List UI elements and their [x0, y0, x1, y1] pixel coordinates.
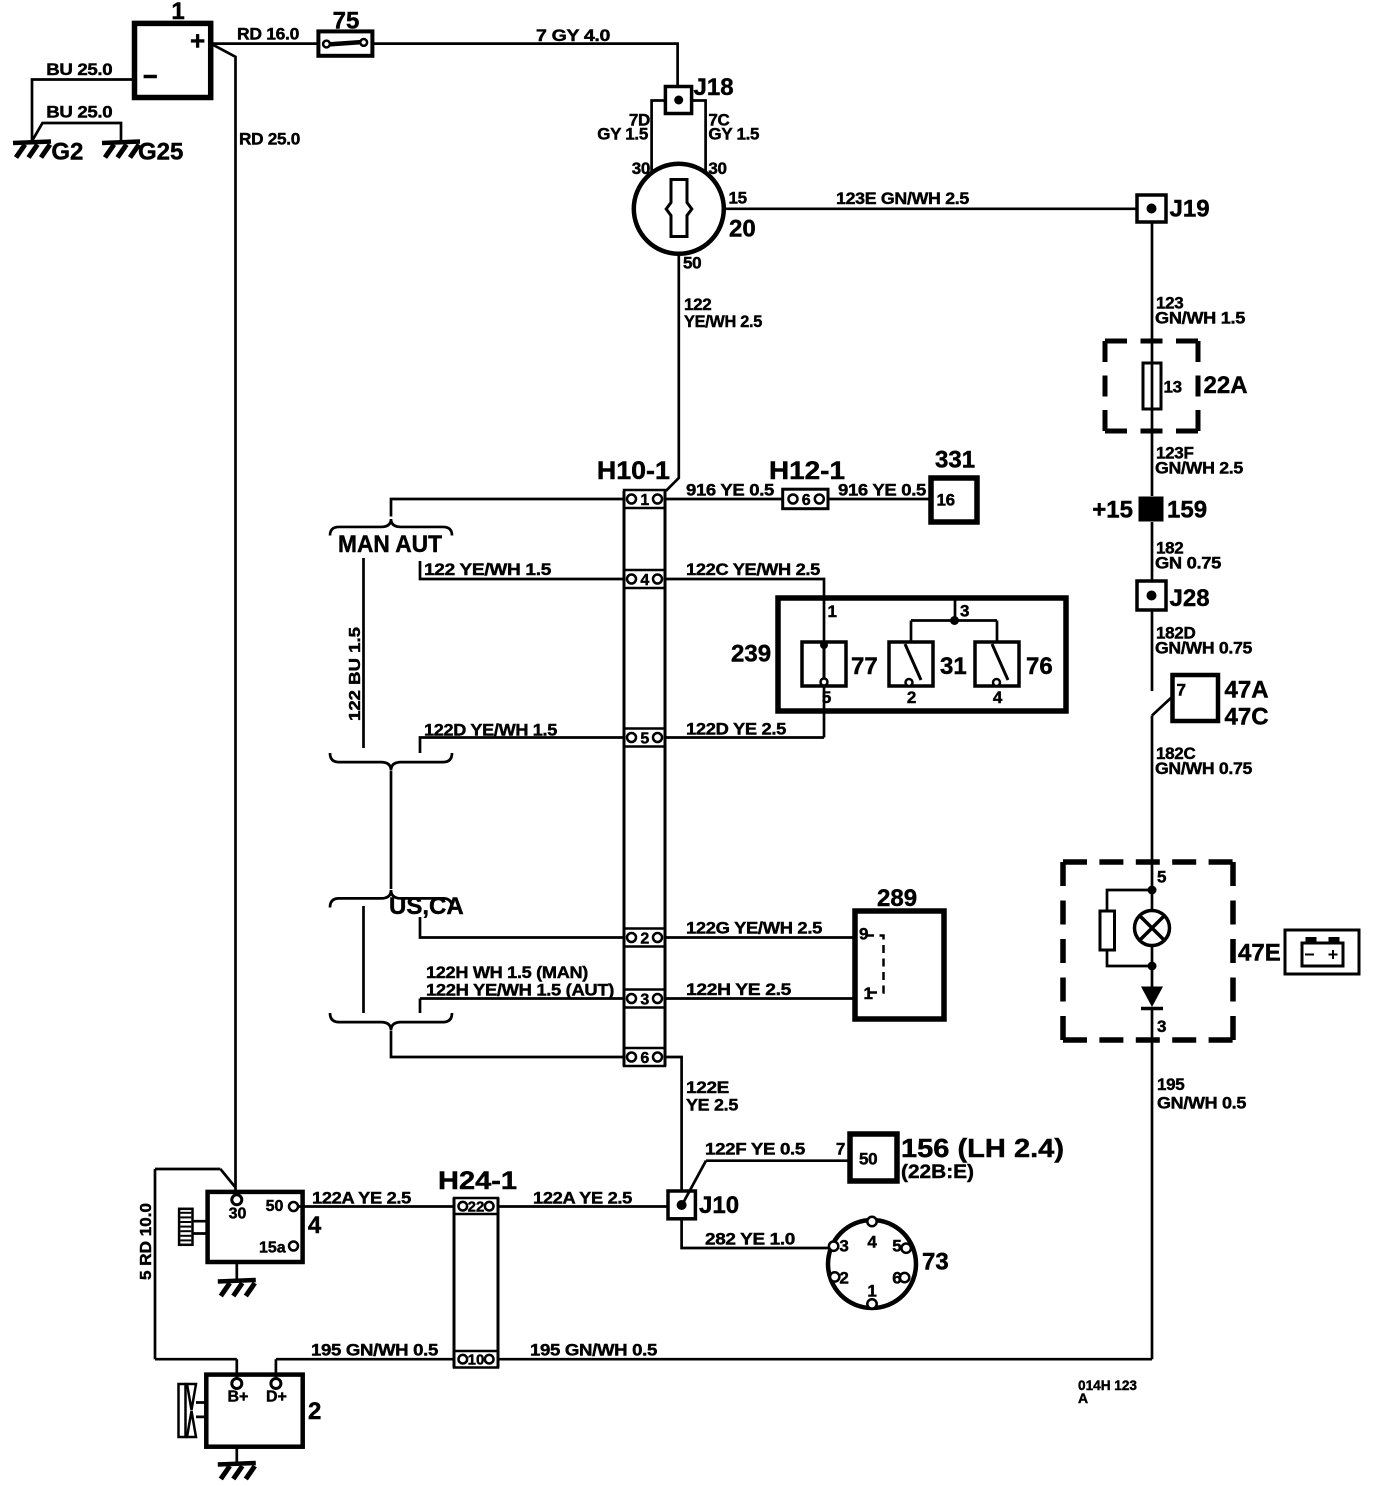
svg-text:47A: 47A: [1225, 677, 1269, 704]
svg-text:195: 195: [1157, 1075, 1184, 1094]
svg-text:123E GN/WH 2.5: 123E GN/WH 2.5: [836, 189, 969, 208]
svg-text:4: 4: [308, 1212, 322, 1239]
svg-text:122C YE/WH 2.5: 122C YE/WH 2.5: [686, 560, 820, 579]
svg-text:122A YE 2.5: 122A YE 2.5: [312, 1189, 411, 1208]
svg-text:122H YE/WH 1.5 (AUT): 122H YE/WH 1.5 (AUT): [426, 981, 614, 1000]
svg-text:H12-1: H12-1: [769, 457, 845, 485]
svg-text:H24-1: H24-1: [438, 1167, 517, 1195]
svg-text:GN/WH 0.75: GN/WH 0.75: [1155, 759, 1252, 778]
svg-text:282 YE 1.0: 282 YE 1.0: [705, 1230, 795, 1249]
svg-text:MAN AUT: MAN AUT: [338, 531, 442, 558]
svg-text:122D YE 2.5: 122D YE 2.5: [686, 720, 786, 739]
svg-text:4: 4: [640, 572, 649, 589]
svg-text:50: 50: [683, 254, 701, 273]
svg-text:916 YE 0.5: 916 YE 0.5: [838, 481, 926, 500]
svg-text:76: 76: [1026, 653, 1053, 680]
svg-text:6: 6: [892, 1269, 901, 1288]
svg-text:YE/WH 2.5: YE/WH 2.5: [684, 312, 762, 331]
svg-text:47C: 47C: [1225, 704, 1269, 731]
svg-text:1: 1: [171, 0, 184, 25]
svg-text:195 GN/WH 0.5: 195 GN/WH 0.5: [311, 1341, 438, 1360]
svg-text:916 YE 0.5: 916 YE 0.5: [686, 481, 774, 500]
svg-text:2: 2: [640, 931, 649, 948]
svg-text:331: 331: [935, 447, 975, 474]
svg-text:6: 6: [802, 492, 811, 509]
svg-text:15a: 15a: [259, 1240, 286, 1257]
svg-text:195 GN/WH 0.5: 195 GN/WH 0.5: [530, 1341, 657, 1360]
svg-text:122 YE/WH 1.5: 122 YE/WH 1.5: [424, 560, 551, 579]
svg-text:GY 1.5: GY 1.5: [597, 125, 648, 144]
svg-text:1: 1: [828, 602, 837, 621]
svg-text:16: 16: [937, 491, 955, 510]
svg-text:YE 2.5: YE 2.5: [686, 1096, 738, 1115]
svg-text:J19: J19: [1170, 196, 1210, 223]
svg-text:US,CA: US,CA: [389, 893, 464, 920]
svg-text:50: 50: [266, 1198, 284, 1215]
svg-text:+15: +15: [1092, 497, 1133, 524]
svg-text:1: 1: [640, 492, 649, 509]
svg-text:122G YE/WH 2.5: 122G YE/WH 2.5: [686, 919, 822, 938]
svg-text:15: 15: [729, 189, 747, 208]
svg-text:3: 3: [1157, 1017, 1166, 1036]
svg-text:50: 50: [859, 1150, 877, 1169]
svg-text:122E: 122E: [686, 1078, 729, 1097]
svg-text:7: 7: [836, 1140, 845, 1159]
svg-text:122A YE 2.5: 122A YE 2.5: [533, 1189, 632, 1208]
svg-text:J10: J10: [699, 1192, 739, 1219]
svg-text:BU 25.0: BU 25.0: [46, 103, 112, 122]
svg-text:5 RD 10.0: 5 RD 10.0: [138, 1203, 155, 1280]
svg-text:6: 6: [640, 1050, 649, 1067]
svg-text:GN/WH 2.5: GN/WH 2.5: [1155, 459, 1243, 478]
svg-text:47E: 47E: [1238, 940, 1281, 967]
svg-text:GY 1.5: GY 1.5: [708, 125, 759, 144]
svg-text:5: 5: [822, 688, 831, 707]
svg-text:239: 239: [731, 641, 771, 668]
svg-text:159: 159: [1167, 497, 1207, 524]
svg-text:4: 4: [993, 688, 1003, 707]
svg-text:31: 31: [940, 653, 967, 680]
svg-text:3: 3: [839, 1237, 848, 1256]
svg-text:5: 5: [640, 731, 649, 748]
svg-text:73: 73: [922, 1249, 949, 1276]
svg-text:G2: G2: [51, 139, 83, 166]
svg-text:GN/WH 1.5: GN/WH 1.5: [1155, 309, 1245, 328]
svg-text:9: 9: [859, 925, 868, 944]
svg-text:30: 30: [708, 159, 726, 178]
svg-text:3: 3: [640, 992, 649, 1009]
svg-text:10: 10: [468, 1352, 485, 1369]
svg-text:RD 25.0: RD 25.0: [239, 130, 300, 149]
svg-text:(22B:E): (22B:E): [901, 1162, 974, 1183]
svg-text:20: 20: [729, 216, 756, 243]
svg-text:13: 13: [1164, 378, 1182, 397]
svg-text:122H YE 2.5: 122H YE 2.5: [686, 980, 791, 999]
svg-text:3: 3: [960, 602, 969, 621]
svg-text:77: 77: [851, 653, 878, 680]
svg-text:1: 1: [864, 984, 873, 1003]
svg-text:2: 2: [839, 1269, 848, 1288]
svg-text:GN/WH 0.5: GN/WH 0.5: [1157, 1094, 1246, 1113]
svg-text:122 BU 1.5: 122 BU 1.5: [347, 627, 364, 721]
svg-text:289: 289: [877, 885, 917, 912]
svg-text:G25: G25: [138, 139, 183, 166]
svg-text:22: 22: [468, 1199, 485, 1216]
svg-text:D+: D+: [266, 1389, 287, 1406]
svg-text:7 GY 4.0: 7 GY 4.0: [536, 26, 610, 45]
svg-text:4: 4: [867, 1233, 877, 1252]
svg-text:2: 2: [308, 1398, 321, 1425]
svg-text:H10-1: H10-1: [597, 457, 670, 485]
svg-text:5: 5: [1157, 868, 1166, 887]
svg-text:7: 7: [1177, 681, 1186, 700]
svg-text:J28: J28: [1170, 585, 1210, 612]
svg-text:B+: B+: [228, 1389, 249, 1406]
svg-text:GN/WH 0.75: GN/WH 0.75: [1155, 639, 1252, 658]
svg-text:122D YE/WH 1.5: 122D YE/WH 1.5: [424, 721, 557, 740]
svg-text:5: 5: [892, 1237, 901, 1256]
svg-text:RD 16.0: RD 16.0: [237, 25, 299, 44]
svg-text:30: 30: [229, 1206, 247, 1223]
svg-text:+: +: [190, 26, 205, 56]
svg-text:22A: 22A: [1204, 372, 1248, 399]
svg-text:2: 2: [907, 688, 916, 707]
svg-text:156 (LH 2.4): 156 (LH 2.4): [901, 1133, 1064, 1163]
svg-text:122H WH 1.5 (MAN): 122H WH 1.5 (MAN): [426, 963, 588, 982]
svg-text:BU 25.0: BU 25.0: [46, 60, 112, 79]
svg-text:30: 30: [632, 159, 650, 178]
svg-text:J18: J18: [694, 74, 734, 101]
svg-text:A: A: [1078, 1390, 1088, 1406]
svg-text:75: 75: [333, 8, 360, 35]
svg-text:GN 0.75: GN 0.75: [1155, 554, 1221, 573]
svg-text:1: 1: [867, 1282, 876, 1301]
svg-text:122F YE 0.5: 122F YE 0.5: [705, 1140, 805, 1159]
